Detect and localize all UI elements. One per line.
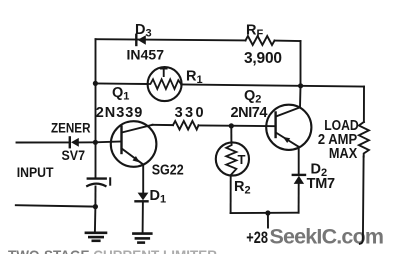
svg-text:2N339: 2N339 (96, 105, 143, 121)
svg-text:T: T (160, 65, 168, 80)
wire Q2 emitter stem (298, 147, 300, 175)
svg-text:ZENER: ZENER (51, 121, 91, 136)
left rail upper (top bus to capacitor) (95, 39, 97, 178)
capacitor (input filter) (87, 179, 106, 186)
wire D1 to ground (142, 201, 144, 233)
wire R2 top stem (230, 126, 232, 143)
node junction left rail / R1 wire (93, 81, 98, 86)
resistor RF zigzag (246, 36, 275, 45)
wire 330 to Q2 base (199, 124, 276, 127)
thermistor R2 (216, 142, 249, 175)
svg-text:IN457: IN457 (127, 47, 165, 63)
right rail lower (load to bottom) (360, 157, 364, 244)
svg-text:+28: +28 (246, 228, 268, 247)
wire right vertical from top bus to Q2 collector node (300, 41, 302, 86)
label 1 (capacitor value) (109, 177, 111, 185)
wire top bus left segment (96, 39, 246, 40)
wire Q1 emitter to D1 (142, 165, 144, 193)
transistor Q1 (95, 121, 156, 167)
wire input upper line (17, 141, 70, 143)
node junction top of Q2 (298, 83, 303, 88)
ground (input side) (86, 233, 106, 241)
wire bottom bus (231, 212, 299, 214)
transistor Q2 (266, 105, 311, 150)
svg-text:SG22: SG22 (152, 163, 184, 179)
svg-text:SeekIC.com: SeekIC.com (270, 225, 385, 249)
resistor 330 zigzag (173, 121, 199, 130)
wire R2 bottom stem (230, 175, 232, 213)
node junction +28 tap (265, 210, 270, 215)
diode D3 (136, 35, 146, 45)
svg-text:MAX: MAX (329, 146, 358, 162)
node junction lower input / rail (93, 204, 98, 209)
left rail lower (capacitor to ground) (94, 187, 96, 207)
diode D2 (293, 175, 305, 184)
ground (D1 side) (133, 234, 151, 243)
svg-text:330: 330 (175, 105, 204, 121)
svg-text:TM7: TM7 (307, 176, 336, 192)
svg-text:TWO-STAGE CURRENT LIMITER: TWO-STAGE CURRENT LIMITER (8, 248, 217, 254)
diode D1 (136, 193, 149, 202)
wire R1 row: left rail to thermistor (95, 82, 147, 85)
zener diode SV7 (70, 137, 96, 147)
svg-text:SV7: SV7 (62, 148, 86, 163)
wire +28 stub (267, 213, 269, 228)
wire Q2 collector stem (299, 86, 302, 107)
svg-text:3,900: 3,900 (244, 50, 282, 67)
wire top bus right segment (275, 40, 301, 42)
right rail upper (to load) (363, 87, 365, 122)
node junction 330 / R2 / Q2 base (229, 123, 234, 128)
thermistor R1 (148, 65, 182, 101)
wire D2 to bottom bus (298, 184, 300, 213)
svg-text:INPUT: INPUT (17, 165, 54, 180)
wire Q1 collector to 330 (153, 124, 174, 126)
wire input lower line (16, 205, 96, 206)
node junction zener / rail / Q1 base (93, 140, 98, 145)
wire ground stem (input) (94, 207, 97, 233)
wire R1 row: thermistor to right rail (181, 84, 364, 86)
resistor LOAD zigzag (359, 122, 369, 157)
svg-text:2NI74: 2NI74 (231, 105, 268, 121)
svg-text:T: T (238, 152, 246, 167)
